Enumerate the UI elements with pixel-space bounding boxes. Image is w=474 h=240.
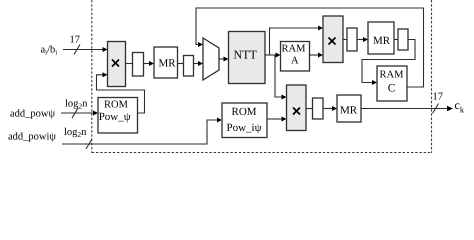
arrowhead into X2 upper input — [318, 26, 323, 31]
arrowhead into mux upper input (feedback) — [198, 42, 203, 47]
arrowhead output c_k — [447, 106, 453, 112]
arrowhead into X3 upper input — [282, 95, 287, 100]
ROM Pow_ipsi — [222, 103, 267, 138]
arrowhead into RAM C — [372, 80, 377, 85]
register reg3 — [347, 28, 357, 51]
arrowhead into MR3 — [332, 106, 337, 111]
RAM C — [377, 66, 407, 101]
register reg2 — [184, 56, 194, 77]
input add_powpsi label — [10, 99, 88, 120]
ROM Pow_psi — [98, 98, 138, 134]
wire reg4 to RAM C input — [362, 40, 415, 83]
svg-text:17: 17 — [433, 92, 444, 103]
RAM A — [281, 42, 310, 72]
arrowhead into X1 lower input — [103, 72, 108, 77]
wire add_powipsi input — [62, 120, 218, 144]
svg-text:MR: MR — [373, 35, 391, 47]
input add_powipsi label — [8, 127, 87, 143]
mux M1 — [203, 38, 219, 80]
wire reg5 to MR3 — [323, 108, 333, 110]
wire ROM Pow_ipsi output to X3 lower input — [267, 118, 283, 120]
register reg1 — [133, 53, 144, 77]
output wire c_k — [361, 108, 449, 110]
wire add_powpsi input — [61, 112, 94, 114]
bus width label 17 output — [433, 92, 444, 103]
wire X2 output to reg3 — [343, 39, 347, 41]
arrowhead into MR2 — [363, 37, 368, 42]
wire RAM C output feedback to mux — [196, 8, 424, 87]
bus slash add_powipsi — [86, 139, 92, 149]
wire ROM Pow_psi output to X1 lower input — [97, 75, 145, 113]
modular reduction MR3 — [337, 95, 361, 122]
register reg4 — [398, 29, 408, 50]
wire X1 output to reg1 — [126, 63, 133, 65]
wire a_i/b_i input — [63, 49, 104, 51]
output c_k label — [455, 98, 465, 115]
modular reduction MR2 — [368, 22, 394, 54]
svg-text:ROM: ROM — [232, 106, 257, 118]
arrowhead into X2 lower input — [318, 53, 323, 58]
svg-text:add_powiψ: add_powiψ — [8, 132, 56, 143]
modular reduction MR1 — [154, 47, 178, 78]
wire mux output to NTT — [219, 58, 225, 60]
arrowhead into X3 lower input — [282, 117, 287, 122]
multiplier X1 — [108, 42, 126, 87]
register reg5 — [313, 98, 324, 119]
multiplier X2 — [323, 16, 343, 63]
wire reg1 to MR1 — [144, 63, 151, 65]
svg-text:log2n: log2n — [65, 99, 88, 111]
input a_i/b_i label — [41, 45, 58, 57]
svg-text:MR: MR — [159, 58, 177, 70]
bus slash a_i/b_i — [74, 45, 80, 55]
svg-text:17: 17 — [70, 35, 81, 46]
wire X3 output to reg5 — [306, 108, 313, 110]
arrowhead into MR1 — [149, 61, 154, 66]
wire MR1 to reg2 — [178, 63, 184, 65]
svg-text:Pow_ψ: Pow_ψ — [99, 111, 131, 123]
arrowhead into mux lower input — [198, 61, 203, 66]
NTT core U1 — [229, 32, 266, 84]
arrowhead into ROM Pow_psi — [93, 111, 98, 116]
svg-text:add_powψ: add_powψ — [10, 109, 55, 120]
svg-text:RAM: RAM — [282, 44, 307, 55]
wire reg2 to mux — [194, 63, 200, 65]
bus width label 17 — [70, 35, 81, 46]
wire MR2 to reg4 — [394, 39, 398, 41]
svg-text:Pow_iψ: Pow_iψ — [227, 122, 262, 134]
svg-text:A: A — [291, 56, 299, 67]
wire branch down to X3 upper input — [275, 55, 283, 97]
svg-text:NTT: NTT — [234, 48, 258, 62]
svg-text:ROM: ROM — [104, 100, 129, 111]
arrowhead into X1 upper input — [103, 47, 108, 52]
wire branch up to X2 upper input — [270, 28, 320, 55]
svg-text:C: C — [388, 83, 396, 95]
arrowhead into NTT — [224, 57, 229, 62]
bus slash add_powpsi — [72, 108, 78, 118]
bus slash output — [433, 104, 439, 114]
svg-text:ai/bi: ai/bi — [41, 45, 58, 57]
arrowhead into ROM Pow_ipsi — [217, 118, 222, 123]
svg-text:log2n: log2n — [64, 127, 87, 139]
wire RAM A output to X2 lower input — [310, 54, 320, 56]
wire NTT output to RAM A — [265, 54, 277, 56]
wire reg3 to MR2 — [357, 39, 364, 41]
arrowhead into RAM A — [276, 53, 281, 58]
svg-text:MR: MR — [340, 105, 358, 117]
multiplier X3 — [287, 85, 307, 131]
svg-text:RAM: RAM — [380, 70, 405, 81]
dashed module border — [92, 0, 432, 153]
